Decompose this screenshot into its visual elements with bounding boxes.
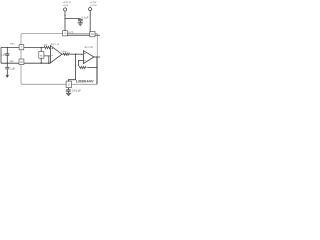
wire VIN-: [1, 62, 19, 64]
node junction dot feedback: [96, 67, 97, 68]
wire A1 minus feed vertical: [44, 56, 51, 63]
wire C3 branch: [65, 18, 80, 21]
svg-text:51k: 51k: [44, 45, 48, 47]
wire VCC to pin 14: [67, 34, 89, 36]
wire C3 bottom lead: [79, 21, 81, 23]
wire R2 top lead: [40, 48, 42, 52]
wire terminal 2 down: [89, 11, 91, 32]
svg-text:A v = +1: A v = +1: [51, 43, 60, 46]
wire R3 to A2: [70, 53, 84, 55]
wire A2 minus input: [79, 60, 84, 66]
resistor R3 interstage: [63, 53, 69, 55]
ground C4: [66, 93, 71, 95]
svg-text:+5.5V: +5.5V: [63, 5, 69, 7]
svg-text:1 µF: 1 µF: [1, 53, 6, 56]
wire pin 14 right: [95, 34, 100, 36]
svg-text:+5.25V: +5.25V: [90, 5, 97, 7]
pin box VIN- pin 9: [19, 59, 24, 65]
node junction dot minus feed: [48, 63, 49, 64]
capacitor C4 0.01uF: [66, 90, 71, 91]
resistor R1 51k: [44, 46, 51, 48]
wire feedback to output: [87, 67, 97, 69]
wire VIN+ internal: [24, 47, 44, 49]
resistor R2 box shunt: [39, 52, 44, 59]
wire VIN+: [1, 47, 19, 49]
op-amp A2: [83, 51, 94, 64]
capacitor C3 0.1uF: [78, 19, 83, 20]
svg-text:0.01 µF: 0.01 µF: [72, 89, 81, 93]
pin box VCC pin 1: [63, 31, 68, 36]
wire C4 lead: [68, 80, 70, 90]
wire output vertical: [96, 57, 98, 84]
op-amp A1: [50, 46, 62, 63]
node junction dot output: [96, 56, 97, 57]
wire C2 top lead: [6, 63, 8, 67]
wire A1 output: [62, 53, 63, 55]
svg-text:V CC: V CC: [68, 32, 74, 35]
svg-text:VIN−: VIN−: [10, 61, 16, 63]
wire VCC down: [64, 11, 66, 31]
wire R2 bottom lead: [40, 58, 42, 63]
capacitor C1 1uF: [5, 54, 9, 55]
svg-text:1 µF: 1 µF: [10, 68, 15, 71]
svg-text:A v = +5: A v = +5: [85, 46, 94, 49]
wire A2 output: [94, 56, 100, 58]
ground C3: [78, 23, 83, 26]
wire filter vertical: [69, 54, 76, 81]
node junction dot VCC/C3: [64, 15, 65, 16]
svg-text:0.1 µF: 0.1 µF: [82, 17, 89, 20]
svg-text:LM9044V: LM9044V: [76, 79, 94, 84]
resistor R4 feedback: [79, 66, 86, 68]
op-amp IC boundary LM9044: [21, 34, 97, 85]
wire C4 bottom lead: [68, 91, 70, 93]
ground sensor: [6, 75, 9, 77]
svg-text:+4.5V TO: +4.5V TO: [62, 2, 71, 4]
wire C1 top lead: [6, 48, 8, 54]
supply terminal VCC: [64, 7, 66, 8]
node junction dot VIN+/C1: [7, 47, 8, 48]
capacitor C2 1uF: [5, 68, 9, 69]
node junction dot filter: [75, 54, 76, 55]
wire C1 bottom lead: [6, 55, 8, 63]
pin box VIN+ pin 7: [19, 45, 24, 50]
supply terminal 2: [89, 6, 91, 7]
svg-text:51.1k: 51.1k: [61, 51, 67, 53]
svg-text:+4.75V: +4.75V: [90, 2, 97, 4]
pin box GND pin 3: [66, 81, 71, 88]
pin box 14: [90, 32, 95, 37]
wire C2 bottom lead: [6, 69, 8, 75]
wire VIN- internal: [24, 62, 50, 64]
node junction dot R2 top: [41, 47, 42, 48]
wire sensor loop left: [0, 48, 2, 64]
svg-text:VIN+: VIN+: [10, 43, 16, 45]
node junction dot VIN-/C2: [7, 63, 8, 64]
node junction dot R2 bottom: [41, 63, 42, 64]
